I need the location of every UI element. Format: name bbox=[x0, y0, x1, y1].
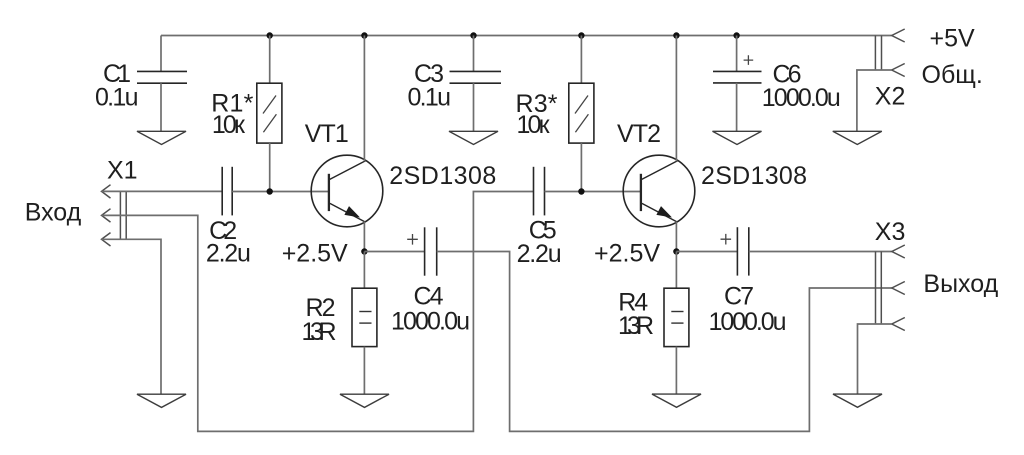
svg-text:Выход: Выход bbox=[923, 270, 998, 298]
capacitor C6 bbox=[713, 36, 762, 132]
connector X3 body bbox=[876, 252, 882, 325]
ground (R2) bbox=[340, 394, 389, 407]
svg-text:1000.0u: 1000.0u bbox=[391, 308, 470, 336]
connector X1 body bbox=[120, 191, 126, 240]
capacitor C5 bbox=[534, 167, 545, 216]
svg-text:13R: 13R bbox=[302, 318, 337, 346]
capacitor C7 bbox=[676, 227, 891, 275]
X3 pin 3 arrow bbox=[892, 318, 905, 331]
svg-text:+2.5V: +2.5V bbox=[282, 240, 348, 268]
X1 pin 3 arrow bbox=[102, 233, 111, 246]
ground (C6) bbox=[713, 131, 762, 144]
X2 pin +5V arrow bbox=[892, 29, 905, 42]
transistor VT2 bbox=[623, 155, 695, 227]
ground (X1) bbox=[137, 394, 186, 407]
wire X3 pin3 to ground bbox=[858, 324, 892, 394]
svg-text:VT2: VT2 bbox=[617, 120, 661, 148]
node dot C2/R1 bbox=[267, 188, 273, 194]
ground (C3) bbox=[449, 131, 498, 144]
X3 pin 2 arrow bbox=[892, 282, 905, 295]
svg-text:2SD1308: 2SD1308 bbox=[389, 162, 496, 190]
ground (X3) bbox=[833, 394, 882, 407]
wire C2 to VT1 base bbox=[232, 191, 329, 193]
svg-text:Вход: Вход bbox=[25, 199, 82, 227]
wire C5 to VT2 base bbox=[545, 191, 641, 193]
svg-text:10к: 10к bbox=[212, 111, 246, 139]
svg-text:+5V: +5V bbox=[930, 25, 976, 53]
svg-text:C7: C7 bbox=[724, 283, 754, 311]
svg-text:13R: 13R bbox=[618, 312, 654, 340]
wire VT1 collector bbox=[363, 36, 365, 162]
ground (C1) bbox=[137, 131, 186, 144]
node junction dots on rail bbox=[267, 32, 740, 38]
svg-text:X2: X2 bbox=[875, 83, 906, 111]
svg-text:1000.0u: 1000.0u bbox=[709, 308, 787, 336]
resistor R4 bbox=[664, 252, 689, 395]
svg-text:X3: X3 bbox=[875, 218, 906, 246]
node dot C5/R3 bbox=[578, 188, 584, 194]
ground (X2) bbox=[833, 131, 882, 144]
wire X2 pin2 to ground bbox=[857, 70, 892, 131]
node emitter VT2 +2.5V bbox=[673, 248, 679, 254]
svg-text:0.1u: 0.1u bbox=[408, 84, 452, 112]
wire X1 pin3 to ground bbox=[102, 239, 162, 394]
connector X2 body bbox=[875, 36, 881, 71]
capacitor C4 bbox=[364, 227, 436, 275]
capacitor C3 bbox=[450, 36, 502, 132]
svg-text:X1: X1 bbox=[107, 156, 138, 184]
svg-text:2.2u: 2.2u bbox=[206, 240, 251, 268]
svg-text:+2.5V: +2.5V bbox=[594, 240, 660, 268]
svg-text:0.1u: 0.1u bbox=[95, 84, 139, 112]
node emitter VT1 +2.5V bbox=[361, 248, 367, 254]
wire VT1 emitter bbox=[363, 222, 365, 252]
X1 pin 2 arrow bbox=[102, 209, 111, 222]
svg-text:1000.0u: 1000.0u bbox=[762, 84, 841, 112]
wire X1 pin2 to C5 (bottom loop 1) bbox=[102, 192, 534, 432]
capacitor C2 bbox=[222, 167, 232, 216]
svg-text:C4: C4 bbox=[414, 282, 444, 310]
svg-text:2.2u: 2.2u bbox=[517, 240, 562, 268]
resistor R1 bbox=[257, 36, 282, 192]
svg-text:2SD1308: 2SD1308 bbox=[701, 162, 807, 190]
wire C4 to X3 pin2 (bottom loop 2) bbox=[437, 252, 892, 432]
resistor R2 bbox=[352, 252, 377, 395]
svg-text:10к: 10к bbox=[517, 111, 551, 139]
wire X1 pin1 to C2 bbox=[102, 190, 223, 192]
transistor VT1 bbox=[311, 155, 383, 227]
capacitor C1 bbox=[137, 36, 187, 132]
svg-text:Общ.: Общ. bbox=[922, 61, 983, 89]
wire +5V top rail bbox=[161, 35, 892, 37]
X2 pin Общ arrow bbox=[892, 64, 905, 77]
wire VT2 emitter bbox=[675, 222, 677, 252]
X1 pin 1 arrow bbox=[102, 185, 111, 198]
ground (R4) bbox=[652, 394, 701, 407]
svg-text:VT1: VT1 bbox=[305, 120, 349, 148]
resistor R3 bbox=[569, 36, 594, 192]
X3 pin 1 arrow bbox=[892, 245, 905, 258]
wire VT2 collector bbox=[675, 36, 677, 162]
